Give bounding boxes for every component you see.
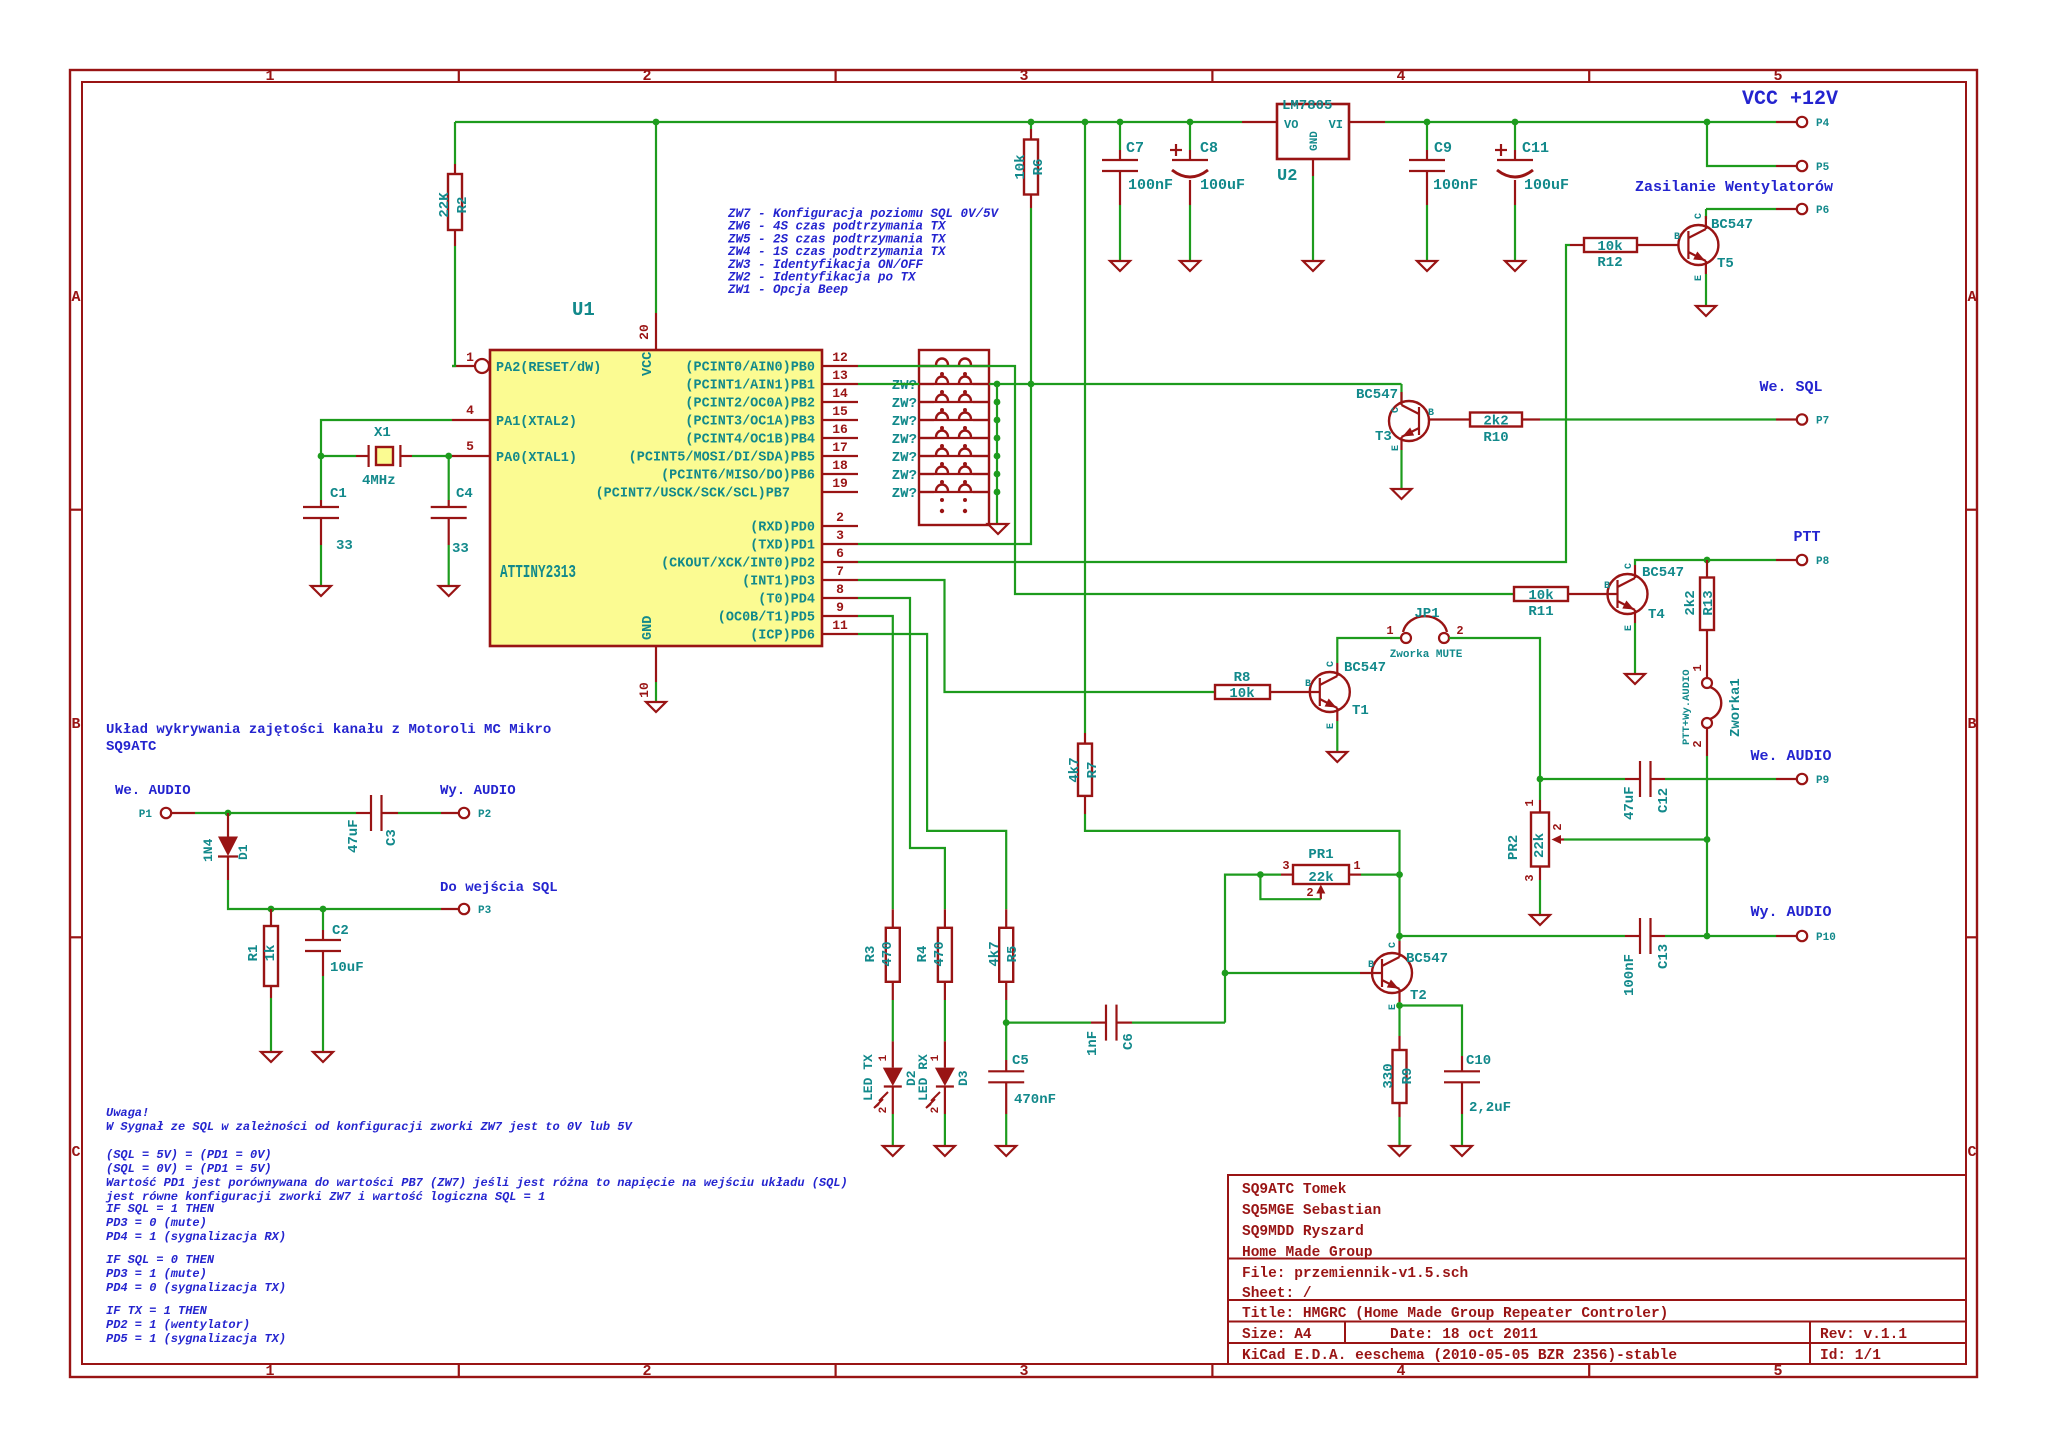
wire Wy.AUDIO line — [1400, 935, 1626, 937]
capacitor C5 — [1005, 1000, 1007, 1023]
U1 pin 17 (PCINT5/MOSI/DI/SDA)PB5 — [822, 455, 858, 457]
resistor R2 — [454, 122, 456, 164]
svg-text:C: C — [1967, 1144, 1976, 1161]
svg-text:2: 2 — [1551, 823, 1565, 830]
svg-text:(PCINT6/MISO/DO)PB6: (PCINT6/MISO/DO)PB6 — [661, 469, 815, 484]
svg-text:100nF: 100nF — [1433, 177, 1478, 194]
svg-text:1N4: 1N4 — [201, 838, 216, 862]
wire U1 VCC drop — [655, 122, 657, 313]
resistor R9 — [1398, 1036, 1400, 1050]
svg-text:U1: U1 — [572, 299, 595, 321]
transistor T1 BC547 — [1310, 672, 1350, 712]
svg-text:BC547: BC547 — [1642, 565, 1684, 581]
svg-text:X1: X1 — [374, 425, 391, 441]
wire T1 collector to JP1 — [1337, 638, 1400, 663]
wire PD5 to R3 — [858, 616, 893, 909]
svg-text:T2: T2 — [1410, 988, 1427, 1004]
ground T3 — [1392, 489, 1412, 499]
resistor R7 — [1084, 122, 1086, 733]
svg-text:GND: GND — [641, 616, 656, 640]
ground T4 — [1625, 674, 1645, 684]
jumper block spare pin dots — [940, 509, 944, 513]
svg-text:2: 2 — [642, 1363, 651, 1380]
svg-text:R13: R13 — [1701, 590, 1717, 615]
resistor R10 — [1429, 418, 1470, 420]
svg-text:9: 9 — [836, 600, 844, 615]
resistor R5 — [1005, 909, 1007, 928]
connector P10 — [1776, 935, 1796, 937]
svg-text:We. AUDIO: We. AUDIO — [1750, 748, 1831, 765]
svg-text:E: E — [1624, 625, 1635, 631]
svg-text:(T0)PD4: (T0)PD4 — [758, 593, 815, 608]
svg-text:BC547: BC547 — [1356, 387, 1398, 403]
transistor T3 BC547 — [1389, 401, 1429, 441]
svg-text:PA2(RESET/dW): PA2(RESET/dW) — [496, 361, 601, 376]
svg-text:T3: T3 — [1375, 429, 1392, 445]
connector P3 — [441, 908, 459, 910]
svg-text:(SQL = 5V) = (PD1 = 0V): (SQL = 5V) = (PD1 = 0V) — [106, 1148, 272, 1162]
svg-text:R3: R3 — [863, 946, 879, 963]
ground C1 — [311, 586, 331, 596]
svg-text:PD3 = 0 (mute): PD3 = 0 (mute) — [106, 1216, 207, 1230]
svg-text:We. SQL: We. SQL — [1759, 379, 1822, 396]
svg-text:SQ9ATC Tomek: SQ9ATC Tomek — [1242, 1182, 1347, 1198]
svg-text:100nF: 100nF — [1128, 177, 1173, 194]
svg-text:SQ9ATC: SQ9ATC — [106, 739, 157, 755]
svg-text:(RXD)PD0: (RXD)PD0 — [750, 521, 815, 536]
capacitor C1 — [320, 500, 322, 507]
svg-text:T4: T4 — [1648, 607, 1665, 623]
wire C6 riser to PR1 — [1225, 875, 1260, 1023]
svg-text:E: E — [1326, 723, 1337, 729]
svg-text:Id: 1/1: Id: 1/1 — [1820, 1348, 1881, 1364]
svg-text:1: 1 — [878, 1054, 890, 1061]
svg-text:R1: R1 — [246, 945, 262, 962]
svg-text:R12: R12 — [1597, 255, 1622, 271]
svg-text:ATTINY2313: ATTINY2313 — [500, 563, 576, 583]
svg-text:R10: R10 — [1483, 430, 1508, 446]
wire pin4 to crystal — [321, 420, 452, 500]
connector P9 — [1776, 778, 1796, 780]
svg-text:2: 2 — [930, 1107, 942, 1114]
svg-text:B: B — [71, 716, 80, 733]
svg-text:Wy. AUDIO: Wy. AUDIO — [440, 783, 516, 799]
capacitor C6 — [1006, 1021, 1091, 1023]
U1 pin 19 (PCINT7/USCK/SCK/SCL)PB7 — [822, 491, 858, 493]
svg-text:14: 14 — [832, 386, 848, 401]
svg-text:PD4 = 1 (sygnalizacja RX): PD4 = 1 (sygnalizacja RX) — [106, 1230, 286, 1244]
svg-text:B: B — [1604, 581, 1610, 592]
svg-text:R8: R8 — [1234, 670, 1251, 686]
svg-text:(PCINT1/AIN1)PB1: (PCINT1/AIN1)PB1 — [685, 379, 815, 394]
U1 ATTINY2313 body — [490, 350, 822, 646]
svg-text:1k: 1k — [263, 945, 279, 962]
svg-text:1: 1 — [265, 68, 274, 85]
U1 pin 4 PA1(XTAL2) — [452, 419, 490, 421]
wire PR1 wiper loop — [1260, 875, 1320, 900]
svg-text:(PCINT7/USCK/SCK/SCL)PB7: (PCINT7/USCK/SCK/SCL)PB7 — [596, 487, 790, 502]
svg-text:18: 18 — [832, 458, 848, 473]
node VCC junctions — [653, 119, 660, 126]
svg-text:(INT1)PD3: (INT1)PD3 — [742, 575, 815, 590]
svg-text:C12: C12 — [1656, 788, 1672, 813]
resistor R13 — [1706, 560, 1708, 578]
capacitor C3 — [356, 812, 371, 814]
svg-text:100uF: 100uF — [1200, 177, 1245, 194]
svg-text:ZW?: ZW? — [892, 378, 917, 394]
svg-text:PR2: PR2 — [1506, 835, 1522, 860]
transistor T5 BC547 — [1678, 225, 1718, 265]
regulator U2 LM7805 — [1242, 121, 1277, 123]
svg-text:C13: C13 — [1656, 944, 1672, 969]
svg-text:PA1(XTAL2): PA1(XTAL2) — [496, 415, 577, 430]
ground C4 — [439, 586, 459, 596]
svg-text:6: 6 — [836, 546, 844, 561]
ground C8 — [1180, 261, 1200, 271]
svg-text:16: 16 — [832, 422, 848, 437]
transistor T2 BC547 — [1372, 953, 1412, 993]
U1 pin 11 (ICP)PD6 — [822, 633, 858, 635]
wire T2 collector — [1398, 941, 1400, 944]
svg-text:C11: C11 — [1522, 140, 1549, 157]
svg-text:2: 2 — [642, 68, 651, 85]
svg-text:47uF: 47uF — [1622, 786, 1638, 820]
svg-text:47uF: 47uF — [346, 819, 362, 853]
svg-text:(ICP)PD6: (ICP)PD6 — [750, 629, 815, 644]
U1 pin 7 (INT1)PD3 — [822, 579, 858, 581]
svg-text:C8: C8 — [1200, 140, 1218, 157]
svg-text:ZW?: ZW? — [892, 414, 917, 430]
wire SQL to T3 collector — [1400, 384, 1402, 402]
svg-text:T1: T1 — [1352, 703, 1369, 719]
svg-text:(PCINT0/AIN0)PB0: (PCINT0/AIN0)PB0 — [685, 361, 815, 376]
svg-text:1: 1 — [930, 1054, 942, 1061]
connector P6 — [1776, 208, 1796, 210]
wire PR2 bottom — [1539, 880, 1541, 914]
svg-text:P9: P9 — [1816, 775, 1829, 787]
svg-text:C6: C6 — [1121, 1033, 1137, 1050]
svg-text:33: 33 — [452, 541, 469, 557]
wire R7 bottom to PR1 net — [1085, 814, 1400, 941]
wire P5 branch — [1707, 122, 1776, 166]
svg-text:IF SQL = 1 THEN: IF SQL = 1 THEN — [106, 1202, 215, 1216]
svg-text:C10: C10 — [1466, 1053, 1491, 1069]
wire T2 emitter node — [1398, 1002, 1400, 1036]
border row ticks — [70, 509, 82, 511]
wire Zworka1 to audio net — [1706, 756, 1708, 936]
svg-text:ZW?: ZW? — [892, 450, 917, 466]
LED D3 — [944, 1000, 946, 1041]
jumper JP1 — [1401, 633, 1411, 643]
resistor R4 — [944, 909, 946, 928]
svg-text:470: 470 — [880, 941, 896, 966]
svg-text:VCC: VCC — [641, 352, 656, 376]
svg-text:C7: C7 — [1126, 140, 1144, 157]
svg-text:KiCad E.D.A. eeschema (2010-0: KiCad E.D.A. eeschema (2010-05-05 BZR 23… — [1242, 1348, 1677, 1364]
connector P4 — [1776, 121, 1796, 123]
svg-text:(OC0B/T1)PD5: (OC0B/T1)PD5 — [718, 611, 815, 626]
wire We.AUDIO line — [1540, 778, 1625, 780]
wire T4 emitter — [1634, 623, 1636, 673]
wire P6 line — [1705, 209, 1707, 219]
svg-text:8: 8 — [836, 582, 844, 597]
wire JP1 to We.AUDIO — [1449, 638, 1540, 779]
svg-text:D3: D3 — [956, 1070, 971, 1086]
svg-text:C: C — [1388, 942, 1399, 948]
wire PB0 to R11 — [858, 366, 1514, 594]
jumper block pin stubs — [919, 365, 934, 367]
svg-text:PTT: PTT — [1793, 529, 1820, 546]
ground T5 — [1696, 306, 1716, 316]
svg-text:C2: C2 — [332, 923, 349, 939]
svg-text:Rev: v.1.1: Rev: v.1.1 — [1820, 1327, 1907, 1343]
svg-text:SQ5MGE Sebastian: SQ5MGE Sebastian — [1242, 1203, 1381, 1219]
svg-text:4MHz: 4MHz — [362, 473, 396, 489]
potentiometer PR1 — [1281, 873, 1293, 875]
ground jumper block — [996, 492, 998, 524]
svg-text:LM7805: LM7805 — [1282, 98, 1332, 114]
svg-text:PD4 = 0 (sygnalizacja TX): PD4 = 0 (sygnalizacja TX) — [106, 1281, 286, 1295]
svg-text:P7: P7 — [1816, 416, 1829, 428]
svg-text:12: 12 — [832, 350, 848, 365]
ground D3 — [935, 1146, 955, 1156]
svg-text:1: 1 — [1691, 664, 1705, 671]
svg-text:PR1: PR1 — [1308, 847, 1333, 863]
svg-text:PTT+Wy.AUDIO: PTT+Wy.AUDIO — [1681, 669, 1693, 745]
svg-text:4k7: 4k7 — [1067, 757, 1083, 782]
resistor R1 — [270, 909, 272, 926]
svg-text:ZW?: ZW? — [892, 432, 917, 448]
svg-text:Wy. AUDIO: Wy. AUDIO — [1750, 904, 1831, 921]
svg-text:BC547: BC547 — [1711, 217, 1753, 233]
svg-text:P3: P3 — [478, 905, 492, 917]
jumper block ZW outline — [919, 350, 989, 525]
potentiometer PR2 — [1539, 779, 1541, 800]
svg-text:R9: R9 — [1400, 1068, 1416, 1085]
svg-text:(PCINT4/OC1B)PB4: (PCINT4/OC1B)PB4 — [685, 433, 815, 448]
svg-text:1: 1 — [265, 1363, 274, 1380]
wire PR2 wiper to audio net — [1564, 838, 1707, 840]
svg-text:File: przemiennik-v1.5.sch: File: przemiennik-v1.5.sch — [1242, 1266, 1468, 1282]
jumper Zworka1 — [1706, 647, 1708, 678]
svg-text:20: 20 — [637, 324, 652, 340]
U1 pin 3 (TXD)PD1 — [822, 543, 858, 545]
svg-text:W Sygnał ze SQL w zależności o: W Sygnał ze SQL w zależności od konfigur… — [106, 1120, 633, 1134]
wire jumper common vertical — [996, 384, 998, 492]
svg-text:19: 19 — [832, 476, 848, 491]
node R5 C5 C6 junction — [1003, 1019, 1010, 1026]
connector P7 — [1776, 418, 1796, 420]
diode D1 1N4... — [227, 813, 229, 837]
capacitor C13 — [1625, 935, 1640, 937]
U1 pin 9 (OC0B/T1)PD5 — [822, 615, 858, 617]
wire PD2 net to R12 — [858, 245, 1570, 562]
svg-text:B: B — [1305, 679, 1311, 690]
svg-text:5: 5 — [1773, 1363, 1782, 1380]
svg-text:10k: 10k — [1013, 154, 1029, 179]
svg-text:C3: C3 — [384, 829, 400, 846]
svg-text:2: 2 — [1306, 886, 1313, 900]
svg-text:BC547: BC547 — [1344, 660, 1386, 676]
svg-text:B: B — [1967, 716, 1976, 733]
svg-text:330: 330 — [1381, 1063, 1397, 1088]
svg-text:4: 4 — [1396, 1363, 1405, 1380]
crystal X1 — [356, 455, 369, 457]
wire PD4 to R4 — [858, 598, 945, 909]
capacitor C10 — [1461, 1056, 1463, 1071]
wire T5 emitter — [1705, 274, 1707, 305]
svg-text:10: 10 — [637, 682, 652, 698]
svg-text:R5: R5 — [1005, 946, 1021, 963]
wire D1 to SQL out — [228, 880, 441, 909]
ground C11 — [1505, 261, 1525, 271]
svg-text:PA0(XTAL1): PA0(XTAL1) — [496, 451, 577, 466]
svg-text:470: 470 — [932, 941, 948, 966]
svg-text:E: E — [1391, 445, 1402, 451]
wire R2 to pin1 — [452, 246, 455, 366]
svg-text:R4: R4 — [915, 946, 931, 963]
U1 pin 18 (PCINT6/MISO/DO)PB6 — [822, 473, 858, 475]
svg-text:2: 2 — [836, 510, 844, 525]
svg-text:7: 7 — [836, 564, 844, 579]
svg-text:P10: P10 — [1816, 932, 1836, 944]
ground T1 — [1327, 752, 1347, 762]
U1 pin 8 (T0)PD4 — [822, 597, 858, 599]
svg-text:3: 3 — [1019, 68, 1028, 85]
svg-text:Home Made Group: Home Made Group — [1242, 1245, 1373, 1261]
U1 pin 1 PA2(RESET/dW) — [452, 365, 474, 367]
capacitor C7 — [1119, 122, 1121, 150]
svg-text:PD5 = 1 (sygnalizacja TX): PD5 = 1 (sygnalizacja TX) — [106, 1332, 286, 1346]
svg-text:R2: R2 — [455, 197, 471, 214]
svg-text:R6: R6 — [1031, 159, 1047, 176]
U1 pin 15 (PCINT3/OC1A)PB3 — [822, 419, 858, 421]
svg-text:1: 1 — [1386, 624, 1393, 638]
wire D2 to ground — [892, 1114, 894, 1145]
svg-text:1: 1 — [1353, 859, 1360, 873]
svg-text:22k: 22k — [1308, 870, 1333, 886]
svg-text:P2: P2 — [478, 809, 491, 821]
svg-text:2: 2 — [878, 1107, 890, 1114]
capacitor C11 — [1514, 122, 1516, 150]
wire T1 emitter — [1336, 721, 1338, 751]
U1 pin 16 (PCINT4/OC1B)PB4 — [822, 437, 858, 439]
svg-text:E: E — [1694, 275, 1705, 281]
resistor R11 — [1514, 587, 1568, 601]
LED D2 — [892, 1000, 894, 1041]
capacitor C2 — [322, 909, 324, 930]
svg-text:(CKOUT/XCK/INT0)PD2: (CKOUT/XCK/INT0)PD2 — [661, 557, 815, 572]
ground R9 — [1390, 1146, 1410, 1156]
ground D2 — [883, 1146, 903, 1156]
svg-text:C5: C5 — [1012, 1053, 1029, 1069]
wire pin5 to crystal — [449, 456, 452, 500]
svg-text:BC547: BC547 — [1406, 951, 1448, 967]
svg-text:B: B — [1368, 960, 1374, 971]
svg-text:4: 4 — [1396, 68, 1405, 85]
svg-text:33: 33 — [336, 538, 353, 554]
svg-text:R7: R7 — [1085, 762, 1101, 779]
svg-text:Zworka1: Zworka1 — [1728, 678, 1744, 737]
capacitor C9 — [1426, 122, 1428, 150]
svg-text:11: 11 — [832, 618, 848, 633]
capacitor C4 — [448, 500, 450, 507]
svg-text:D1: D1 — [236, 844, 251, 860]
svg-text:VCC +12V: VCC +12V — [1742, 88, 1838, 111]
svg-text:LED TX: LED TX — [861, 1054, 876, 1101]
wire C6 to riser — [1132, 1021, 1225, 1023]
svg-text:Title: HMGRC (Home Made Group: Title: HMGRC (Home Made Group Repeater C… — [1242, 1306, 1668, 1322]
svg-text:Size: A4: Size: A4 — [1242, 1327, 1312, 1343]
wire PD3 to R8 — [858, 580, 1215, 692]
svg-text:4: 4 — [466, 403, 474, 418]
svg-text:3: 3 — [1523, 874, 1537, 881]
svg-text:Uwaga!: Uwaga! — [106, 1106, 149, 1120]
wire PD1 pin3 net — [858, 385, 1031, 544]
svg-text:10uF: 10uF — [330, 960, 364, 976]
wire C3 to P2 — [398, 812, 441, 814]
resistor R6 — [1030, 122, 1032, 129]
svg-text:(PCINT3/OC1A)PB3: (PCINT3/OC1A)PB3 — [685, 415, 815, 430]
svg-text:10k: 10k — [1597, 239, 1622, 255]
ground C2 — [313, 1052, 333, 1062]
svg-text:Wartość PD1 jest porównywana d: Wartość PD1 jest porównywana do wartości… — [106, 1176, 848, 1190]
svg-text:Sheet: /: Sheet: / — [1242, 1286, 1312, 1302]
ground R1 — [261, 1052, 281, 1062]
svg-text:Date: 18 oct 2011: Date: 18 oct 2011 — [1390, 1327, 1538, 1343]
connector P5 — [1776, 165, 1796, 167]
svg-text:B: B — [1428, 408, 1434, 419]
U1 pin 13 (PCINT1/AIN1)PB1 — [822, 383, 858, 385]
wire R6 to SQL net — [1030, 208, 1032, 385]
svg-text:13: 13 — [832, 368, 848, 383]
svg-text:1: 1 — [466, 350, 474, 365]
svg-text:P8: P8 — [1816, 556, 1830, 568]
svg-text:IF TX = 1 THEN: IF TX = 1 THEN — [106, 1304, 208, 1318]
svg-text:10k: 10k — [1229, 686, 1254, 702]
svg-text:We. AUDIO: We. AUDIO — [115, 783, 191, 799]
svg-text:Zworka MUTE: Zworka MUTE — [1390, 649, 1463, 661]
svg-text:VI: VI — [1329, 118, 1343, 132]
svg-text:R11: R11 — [1528, 604, 1553, 620]
svg-text:A: A — [71, 289, 80, 306]
svg-text:3: 3 — [1282, 859, 1289, 873]
svg-text:3: 3 — [1019, 1363, 1028, 1380]
svg-text:PD2 = 1 (wentylator): PD2 = 1 (wentylator) — [106, 1318, 250, 1332]
svg-text:470nF: 470nF — [1014, 1092, 1056, 1108]
capacitor C12 — [1625, 778, 1640, 780]
svg-text:LED RX: LED RX — [916, 1054, 931, 1101]
svg-text:C: C — [1694, 213, 1705, 219]
title block outline — [1228, 1175, 1966, 1364]
ground C7 — [1110, 261, 1130, 271]
svg-text:T5: T5 — [1717, 256, 1734, 272]
svg-text:(PCINT5/MOSI/DI/SDA)PB5: (PCINT5/MOSI/DI/SDA)PB5 — [629, 451, 815, 466]
svg-text:P1: P1 — [139, 809, 153, 821]
svg-text:JP1: JP1 — [1414, 606, 1439, 622]
wire R9 bottom — [1398, 1117, 1400, 1145]
svg-text:1nF: 1nF — [1085, 1031, 1101, 1056]
ground U1 — [655, 682, 657, 701]
svg-text:ZW?: ZW? — [892, 486, 917, 502]
svg-text:22K: 22K — [437, 192, 453, 218]
svg-text:2: 2 — [1691, 740, 1705, 747]
border column ticks — [458, 70, 460, 82]
svg-text:C9: C9 — [1434, 140, 1452, 157]
ground U2 — [1303, 261, 1323, 271]
svg-text:A: A — [1967, 289, 1976, 306]
U1 pin 10 GND — [655, 646, 657, 682]
